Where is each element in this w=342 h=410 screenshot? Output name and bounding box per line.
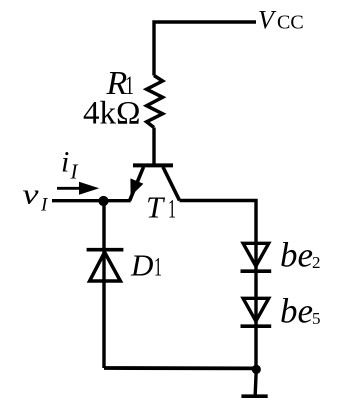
svg-text:1: 1 [168,195,176,224]
current iI label [61,145,79,183]
diode be5 triangle [243,298,269,321]
svg-text:5: 5 [312,309,321,328]
diode be2 triangle [243,243,269,266]
node VCC label [258,6,304,35]
diode be5 cathode bar [241,324,272,328]
wire collector to right branch [180,201,257,370]
input wire vI [52,199,131,202]
wire VCC top rail [154,22,256,76]
svg-text:V: V [258,6,277,35]
resistor R1 reference label [106,65,135,102]
diode be2 cathode bar [241,269,272,273]
svg-text:i: i [61,145,69,178]
current iI arrow [57,182,99,195]
transistor T1 emitter arrowhead [130,178,143,196]
svg-text:T: T [146,190,166,225]
diode D1 label [130,248,162,283]
wire bottom [104,366,256,370]
transistor T1 collector lead [163,167,180,201]
wire resistor to transistor base [152,128,155,164]
svg-text:CC: CC [277,12,304,34]
wire left branch vertical [102,201,105,368]
svg-text:be: be [280,291,313,330]
transistor T1 emitter lead [130,167,144,201]
junction node ground [252,365,261,374]
diode D1 triangle [90,252,121,281]
svg-text:1: 1 [154,253,162,282]
transistor T1 label [146,190,176,225]
svg-text:4kΩ: 4kΩ [83,95,141,131]
svg-text:v: v [23,179,39,211]
ground bar [241,394,267,398]
resistor R1 zigzag [147,76,163,128]
diode D1 cathode bar [87,248,124,252]
svg-text:I: I [40,195,49,216]
svg-text:2: 2 [312,253,321,272]
transistor T1 base bar [133,163,173,167]
diode be5 label [280,291,321,330]
ground stem [255,371,256,395]
svg-text:D: D [130,248,153,283]
junction node input [98,196,108,206]
svg-text:I: I [70,160,79,184]
node vI label [23,179,50,216]
diode be2 label [280,235,321,274]
svg-text:be: be [280,235,313,274]
